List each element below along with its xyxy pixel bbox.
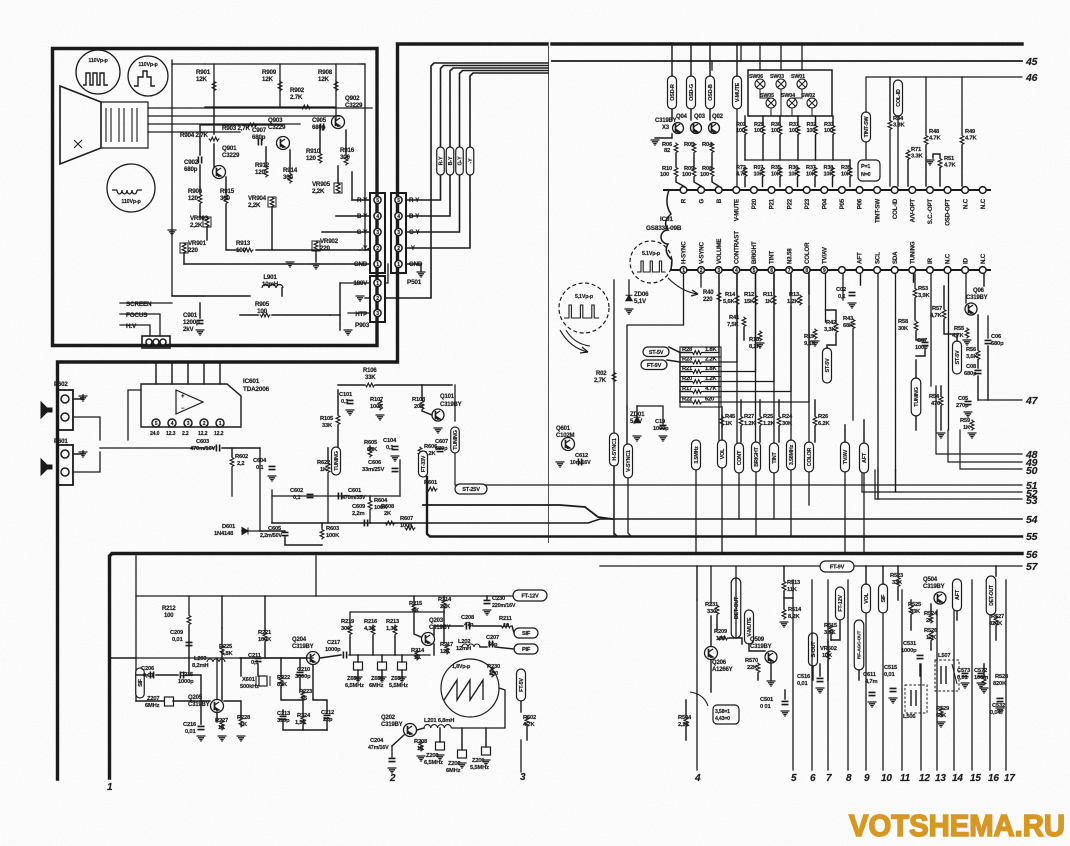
wire [693, 154, 695, 166]
wire FT-12V rail [136, 595, 513, 597]
wire line 45 [552, 60, 1022, 62]
net label SIF (out) [514, 628, 538, 638]
capacitor C104 0.1 [383, 438, 399, 451]
capacitor C612 10m/16V [570, 453, 591, 466]
wire [877, 470, 879, 499]
capacitor C06 680p [985, 334, 1005, 347]
wire [709, 109, 711, 120]
resistor R212 100 [162, 606, 191, 626]
speaker (P602) [41, 402, 52, 418]
wire [790, 274, 792, 294]
capacitor C211 0.1 [248, 653, 262, 666]
wire C516 drop [819, 664, 821, 676]
wire SW01 to bus [801, 44, 803, 70]
resistor R912 [255, 162, 270, 178]
wire line 54 [272, 519, 1022, 523]
wire TV/AV to bus [844, 472, 846, 554]
wire [213, 144, 215, 167]
wire [226, 205, 240, 250]
wire [327, 448, 329, 462]
resistor R40 220 [703, 290, 721, 303]
transistor Q04 [673, 123, 684, 134]
wire IC01 bottom pin bus [672, 269, 990, 271]
wire ladder to pin x=809 [703, 274, 809, 402]
capacitor C611 4.7m [863, 672, 877, 696]
wire TINT-SW [865, 142, 867, 160]
zener ZD06 5.1V [626, 291, 650, 305]
resistor R58 30K [898, 318, 932, 334]
wire to pin 13 [936, 610, 938, 770]
resistor R14 5.6K [723, 292, 739, 306]
wire [671, 43, 673, 76]
transistor Q205 C319BY [188, 695, 224, 713]
transistor Q204 C319BY [292, 637, 320, 665]
resistor R21 1.8K [680, 366, 717, 373]
net label AFT (bottom) [860, 443, 869, 473]
wire [299, 658, 301, 670]
ceramic Z203 6,5MHz [424, 742, 445, 766]
ground (R228) [237, 736, 246, 741]
wire SW01 to SW04 [792, 89, 802, 98]
resistor R10 100 [660, 166, 678, 178]
wire IC601 left [128, 390, 141, 440]
wire -Y to bundle [406, 73, 548, 248]
wire [832, 116, 834, 125]
wire [221, 656, 223, 700]
switch matrix box [748, 70, 832, 116]
wire line 51 [455, 453, 1022, 485]
wire [156, 674, 178, 676]
switch SW03 [770, 74, 786, 89]
wire [721, 427, 723, 443]
wire [779, 116, 781, 125]
net label FT-5V (right) [517, 669, 526, 701]
IC01 top pin 19 (R) [680, 187, 687, 194]
wire line45 drop a [711, 61, 713, 70]
wire [710, 616, 712, 646]
wire SW03 to bus [780, 44, 782, 70]
wire focus [120, 314, 160, 336]
wire [320, 655, 341, 658]
capacitor C230 220m/16V [484, 596, 516, 609]
wire [365, 249, 370, 251]
wire [224, 701, 241, 716]
wire [280, 658, 282, 675]
wire [759, 400, 761, 416]
wire [696, 566, 698, 600]
wire [762, 178, 764, 187]
net label TUNING (q101) [451, 427, 460, 453]
wire line 47 [978, 399, 1022, 401]
wire [770, 108, 772, 116]
ground (P602) [73, 395, 88, 401]
wire R-Y into P901 [352, 199, 370, 201]
ground (ZD06) [625, 309, 634, 314]
wire [421, 385, 423, 399]
net label TV/AV (bottom) [841, 442, 850, 472]
wire NC drop [948, 274, 950, 430]
resistor R514 8.2K [782, 607, 802, 620]
resistor R107 100K [370, 397, 384, 411]
wire ladder row lines [680, 357, 721, 397]
resistor R55 4.7K [952, 326, 969, 339]
wire [187, 363, 189, 384]
resistor R227 1K [215, 718, 228, 731]
wire V-SYNC pin drop [700, 274, 702, 287]
ceramic Z201 5,5MHz [470, 747, 491, 771]
CRT heater coil bubble 110Vp-p [107, 164, 155, 212]
waveform bubble 5.1Vp-p (hsync) [559, 283, 609, 346]
transistor Q601 C102M [556, 426, 575, 451]
wire [778, 400, 780, 416]
inductor L901 [262, 274, 283, 288]
ground (R514) [780, 622, 789, 627]
wire [240, 657, 307, 659]
wire [339, 283, 341, 330]
ground (VR902) [312, 264, 321, 269]
transistor Q206 A1266Y [705, 647, 733, 674]
IC601 pin 2 [200, 419, 208, 427]
wire [302, 726, 304, 730]
IC01 top pin 21 (B) [715, 187, 722, 194]
IC01 bottom pin 14 (TUNING) [909, 267, 916, 274]
wire VOLUME to VOL capsule [718, 303, 720, 440]
wire R43 drop [852, 330, 854, 420]
capacitor C209 0.01 [170, 630, 193, 646]
resistor R214b 1K [411, 648, 425, 661]
IC01 top pin 29 (P06) [856, 187, 863, 194]
wire [910, 616, 912, 630]
ground (C216) [197, 736, 206, 741]
transistor Q06 C319BY [965, 288, 988, 315]
wire [744, 136, 746, 161]
wire [783, 592, 785, 608]
wire [675, 154, 677, 166]
capacitor C216 0.01 [183, 722, 205, 735]
wire [188, 658, 190, 675]
net label DET-OUT (right) [986, 576, 996, 615]
wire pin10 drop [842, 274, 844, 300]
resistor R39 10K [841, 165, 852, 178]
IC01 top pin 32 (A/V-OPT) [909, 187, 916, 194]
resistor R914 [283, 167, 298, 184]
resistor R608 2K [381, 504, 396, 525]
wire [762, 136, 764, 161]
IC01 top pin 27 (P04) [821, 187, 828, 194]
wire R602 drop [231, 468, 233, 496]
net label AFT (bottom2) [953, 579, 962, 611]
resistor R04 82 [702, 142, 714, 154]
wire [319, 130, 321, 152]
resistor R524 2K [924, 611, 938, 624]
capacitor C606 33m/25V [362, 460, 399, 473]
wire L201 to sawtooth [452, 688, 505, 728]
wire P601 join [73, 452, 100, 472]
wire [716, 616, 718, 630]
net label DET-OUT (left) [731, 578, 741, 638]
ground (P501 GND) [406, 264, 426, 277]
ground (C604) [268, 476, 277, 481]
ground (C204) [388, 768, 397, 773]
wire to pin 4 [696, 600, 698, 770]
net label ST-25V [455, 484, 487, 494]
resistor R526 12K [924, 628, 938, 642]
wire [830, 636, 832, 640]
capacitor C603 470m/16V [190, 439, 220, 452]
wire CONT drop [738, 473, 740, 519]
wire [337, 390, 339, 414]
wire [779, 178, 781, 187]
IC01 bottom pin 6 (TINT) [768, 267, 775, 274]
wire main bus top right segment [552, 42, 1022, 45]
resistor R225 6.8K [219, 644, 233, 657]
wire [736, 306, 738, 316]
wire [111, 657, 136, 659]
ground (R55) [963, 340, 972, 345]
wire 180V rail [205, 63, 365, 65]
wire [995, 566, 997, 576]
resistor R231 330 [705, 602, 719, 616]
resistor R02 2.7K [594, 371, 616, 384]
resistor R53 3.9K [913, 286, 930, 299]
connector P501 (chassis side) [391, 193, 406, 273]
IC01 bottom pin 7 (N3.58) [786, 267, 793, 274]
wire [721, 415, 723, 427]
crystal X601 500kHz [240, 676, 270, 690]
connector P602 [54, 381, 73, 430]
net label 3.5MHz [692, 440, 701, 470]
wire [264, 643, 266, 658]
inductor L201 6.8mH [424, 718, 454, 728]
IC01 bottom pin 8 (COLOR) [803, 267, 810, 274]
wire [710, 660, 712, 692]
capacitor C204 47m/16V [368, 738, 396, 762]
net label VOL (bottom) [862, 584, 871, 613]
IC01 bottom pin 9 (TV/AV) [821, 267, 828, 274]
wire [987, 346, 989, 400]
wire 3.5MHz capsule to bus [695, 470, 697, 554]
resistor R57 4.7K [930, 306, 946, 320]
wire main bus top-left L [58, 44, 548, 779]
wire Q902 emitter to R-Y [351, 172, 353, 200]
resistor R208 1K [414, 739, 428, 752]
ground (R18) [756, 343, 765, 348]
wire [173, 700, 210, 702]
wire [778, 427, 780, 443]
capacitor C905 [312, 117, 327, 131]
wire [914, 299, 916, 320]
resistor R529 68K [936, 706, 950, 719]
capacitor C907 [252, 127, 267, 146]
wire [977, 376, 979, 400]
capacitor C210 3300p [295, 667, 311, 680]
wire [289, 150, 291, 172]
wire [814, 178, 816, 187]
transistor Q901 C3229 [213, 145, 240, 179]
resistor R41 7.5K [727, 315, 746, 328]
wire SCL long drop [877, 274, 879, 470]
wire COL-ID [897, 116, 899, 186]
wire [832, 136, 834, 161]
ground (C02) [848, 303, 857, 308]
resistor R502 4.7K [523, 715, 536, 728]
wire [815, 116, 817, 125]
wire R908 branch [335, 64, 337, 119]
wire [188, 626, 190, 658]
wire SW03 down [780, 89, 782, 116]
net label ST-5V (ladder) [643, 347, 669, 357]
net label SIF (bottom) [879, 584, 888, 613]
wire SDA long drop [895, 274, 897, 470]
ground (ZD01) [633, 436, 642, 441]
wire [889, 77, 891, 120]
wire SW06 to bus [759, 44, 761, 70]
wire [915, 416, 917, 430]
wire R902 rail [205, 106, 336, 108]
wire TINT drop low [773, 473, 775, 519]
wire [199, 303, 201, 318]
wire R604 drop [369, 510, 371, 523]
resistor R913 [236, 240, 254, 254]
capacitor C02 0.1 [836, 287, 856, 300]
IC01 top pin 35 (N.C) [962, 187, 969, 194]
resistor R504 2.2K [678, 715, 692, 728]
resistor R223 75 [299, 689, 313, 702]
wire thick-to-45 drop [740, 44, 742, 61]
wire Q205 collector [216, 658, 218, 699]
wire [313, 665, 327, 713]
ground (R59) [968, 433, 977, 438]
wire line 46 [866, 77, 1022, 112]
wire H-SYNC1 drop [614, 466, 617, 536]
resistor R523 33K [890, 573, 904, 588]
wire [136, 674, 148, 676]
speaker (P601) [41, 459, 52, 475]
IC01 bottom pin 3 (VOLUME) [715, 267, 722, 274]
wire ladder to pin x=755.5 [703, 274, 756, 372]
wire HTP to bundle [385, 63, 548, 298]
wire [439, 728, 441, 742]
connector P903 [370, 276, 385, 322]
capacitor C217 1000p [325, 640, 347, 659]
wire [779, 136, 781, 161]
net label COL-ID [894, 80, 903, 116]
connector P901 (board side) [370, 193, 385, 273]
net label H-SYNC1 [610, 433, 619, 466]
waveform bubble 1.8Vp-p sawtooth [441, 659, 499, 717]
wire [349, 636, 351, 655]
wire ladder grid box [680, 347, 721, 407]
wire ladder to pin x=737 [703, 274, 737, 362]
capacitor C07 100p [915, 338, 929, 351]
net label R-Y [437, 147, 445, 175]
wire to pin 11 [901, 590, 903, 770]
wire [882, 566, 884, 584]
wire ladder to pin x=791 [703, 274, 791, 392]
wire [943, 286, 945, 308]
transistor Q202 C319BY [381, 715, 417, 737]
wire [376, 384, 452, 386]
wire line 53 [875, 470, 1022, 499]
wire [736, 274, 738, 294]
transistor Q504 C319BY [923, 577, 946, 604]
IC601 pin 1 [216, 419, 224, 427]
capacitor C572 100m [974, 668, 988, 681]
wire [330, 314, 340, 316]
resistor R18 8.2K [749, 331, 762, 351]
switch SW02 [801, 93, 817, 108]
IC01 top pin 23 (P20) [751, 187, 758, 194]
IC01 bottom pin 10 (nc) [839, 267, 846, 274]
wire [302, 702, 304, 714]
wire ladder to pin x=719 [703, 274, 719, 353]
wire [940, 407, 942, 430]
resistor R17 4.7K [680, 386, 717, 393]
resistor R213 1,3K [386, 619, 400, 636]
wire R601 drop [399, 460, 401, 496]
wire COLOR drop [808, 306, 810, 442]
resistor R27 1.2K [739, 414, 756, 427]
wire left rail of CRT board [172, 60, 205, 296]
wire [749, 644, 765, 651]
wire [338, 384, 364, 386]
net label FT-9V (ladder) [641, 360, 667, 370]
ground (C104) [391, 456, 400, 461]
resistor R224 1.5K [295, 713, 311, 726]
diode D601 1N4148 [214, 524, 248, 537]
wire R49 from line 46 [961, 77, 963, 134]
wire line 52 [862, 470, 1022, 492]
net label FT-33V [419, 451, 428, 477]
wire [495, 647, 514, 649]
resistor R527 820K [989, 614, 1004, 627]
wire R901 branch [213, 64, 215, 108]
IC01 bottom pin 12 (SCL) [874, 267, 881, 274]
resistor R56 3.6K [966, 347, 980, 361]
wire to Q203 base [349, 654, 430, 656]
wire line 48 [936, 430, 1022, 454]
wire line 57 [600, 565, 1022, 567]
ground (C516) [816, 688, 825, 693]
wire [219, 363, 221, 384]
potentiometer VR901 [180, 240, 207, 254]
wire [759, 427, 761, 443]
wire [172, 295, 250, 297]
wire H-SYNC pin route [627, 274, 684, 406]
resistor R513 11K [782, 580, 801, 593]
resistor R48 4.7K [924, 129, 941, 146]
picture-tube PCB block border [53, 49, 378, 346]
wire line 49 [948, 430, 1022, 462]
wire [265, 147, 267, 166]
potentiometer VR903 [190, 215, 211, 229]
resistor R916 [340, 147, 355, 166]
wire [814, 427, 816, 443]
wire D601 node [242, 448, 260, 531]
switch SW06 [749, 74, 765, 89]
resistor R03 100 [736, 122, 747, 136]
resistor R29 100 [754, 122, 765, 136]
IC01 top pin 24 (P21) [768, 187, 775, 194]
resistor R28 1.8K [680, 347, 717, 354]
wire [283, 722, 327, 730]
wire [743, 328, 745, 340]
resistor R221 100K [258, 630, 272, 643]
wire [257, 664, 259, 676]
wire Q06 emitter drop [987, 316, 989, 338]
capacitor C05 270p [956, 396, 972, 409]
wire switch row common [745, 159, 850, 161]
